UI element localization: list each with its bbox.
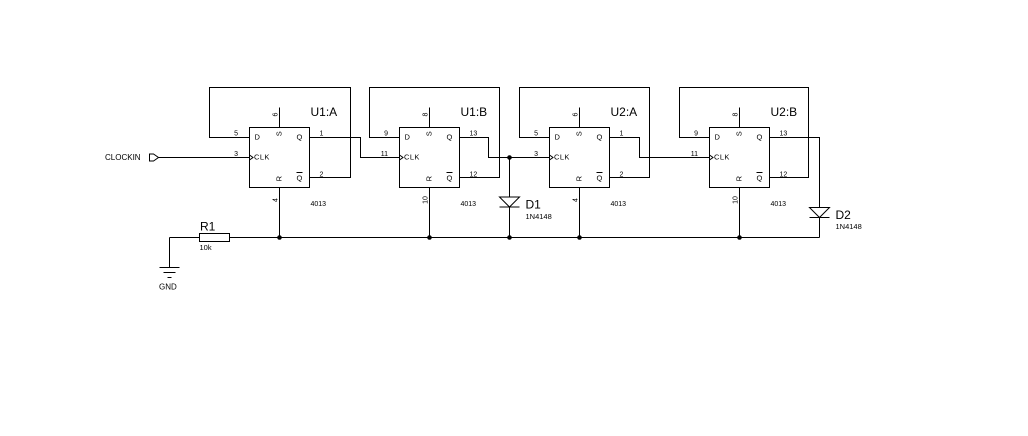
- svg-text:4: 4: [573, 198, 580, 202]
- svg-text:1N4148: 1N4148: [836, 222, 862, 231]
- svg-text:U2:B: U2:B: [771, 105, 798, 119]
- svg-text:D: D: [555, 133, 561, 142]
- svg-text:2: 2: [620, 172, 624, 179]
- svg-text:Q: Q: [597, 133, 603, 142]
- svg-text:Q: Q: [757, 133, 763, 142]
- svg-text:9: 9: [384, 131, 388, 138]
- svg-text:Q: Q: [297, 133, 303, 142]
- svg-text:CLK: CLK: [404, 153, 420, 162]
- svg-text:U1:B: U1:B: [461, 105, 488, 119]
- svg-text:CLK: CLK: [554, 153, 570, 162]
- svg-text:U2:A: U2:A: [611, 105, 638, 119]
- svg-text:12: 12: [780, 172, 788, 179]
- svg-text:D: D: [715, 133, 721, 142]
- svg-text:S: S: [575, 131, 584, 136]
- svg-text:D1: D1: [526, 198, 542, 212]
- svg-text:5: 5: [534, 131, 538, 138]
- svg-text:5: 5: [234, 131, 238, 138]
- svg-text:Q: Q: [297, 174, 303, 183]
- svg-text:3: 3: [234, 151, 238, 158]
- svg-text:10k: 10k: [200, 243, 212, 252]
- svg-text:Q: Q: [447, 174, 453, 183]
- svg-text:Q: Q: [757, 174, 763, 183]
- svg-text:10: 10: [423, 196, 430, 204]
- svg-text:S: S: [735, 131, 744, 136]
- svg-text:1N4148: 1N4148: [526, 212, 552, 221]
- svg-text:6: 6: [573, 112, 580, 116]
- svg-text:4: 4: [273, 198, 280, 202]
- svg-text:8: 8: [733, 112, 740, 116]
- svg-text:Q: Q: [597, 174, 603, 183]
- svg-text:12: 12: [470, 172, 478, 179]
- svg-text:3: 3: [534, 151, 538, 158]
- svg-text:CLK: CLK: [714, 153, 730, 162]
- svg-text:4013: 4013: [311, 201, 327, 208]
- svg-text:4013: 4013: [771, 201, 787, 208]
- svg-text:2: 2: [320, 172, 324, 179]
- svg-text:S: S: [425, 131, 434, 136]
- svg-text:4013: 4013: [461, 201, 477, 208]
- svg-text:D2: D2: [836, 208, 852, 222]
- svg-text:1: 1: [620, 131, 624, 138]
- svg-text:8: 8: [423, 112, 430, 116]
- svg-text:6: 6: [273, 112, 280, 116]
- svg-text:CLK: CLK: [254, 153, 270, 162]
- svg-text:9: 9: [694, 131, 698, 138]
- svg-text:R1: R1: [200, 220, 216, 234]
- svg-text:11: 11: [691, 151, 698, 158]
- svg-text:11: 11: [381, 151, 388, 158]
- svg-text:D: D: [255, 133, 261, 142]
- svg-text:4013: 4013: [611, 201, 627, 208]
- svg-text:10: 10: [733, 196, 740, 204]
- svg-text:R: R: [425, 175, 434, 181]
- svg-text:GND: GND: [159, 283, 177, 292]
- svg-text:Q: Q: [447, 133, 453, 142]
- svg-text:U1:A: U1:A: [311, 105, 338, 119]
- svg-text:13: 13: [780, 131, 788, 138]
- svg-text:D: D: [405, 133, 411, 142]
- svg-text:CLOCKIN: CLOCKIN: [105, 153, 141, 162]
- svg-text:13: 13: [470, 131, 478, 138]
- svg-text:S: S: [275, 131, 284, 136]
- svg-text:R: R: [575, 175, 584, 181]
- svg-text:1: 1: [320, 131, 324, 138]
- svg-text:R: R: [735, 175, 744, 181]
- svg-text:R: R: [275, 175, 284, 181]
